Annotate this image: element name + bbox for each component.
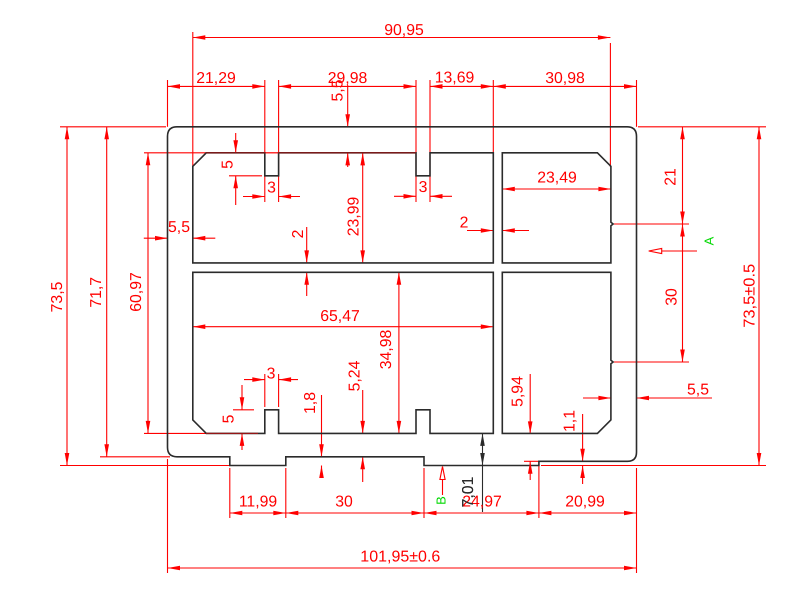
svg-text:60,97: 60,97 xyxy=(128,272,145,312)
dim line 73,5 xyxy=(66,127,68,466)
black dim text 7,01 overlay xyxy=(460,476,477,507)
dim text 5 at (228,419) xyxy=(221,414,238,423)
dim line 3 tab1 width xyxy=(244,379,298,381)
dim text 21,29 at (216,77) xyxy=(196,70,236,87)
extension line x=430 xyxy=(429,80,431,202)
dim text 3 at (271,373) xyxy=(267,366,276,383)
svg-text:5: 5 xyxy=(221,414,238,423)
dim text 71,7 at (95,292) xyxy=(88,277,105,308)
extension line right notch A (y=224) xyxy=(613,223,689,225)
dim text 29,98 at (347,77) xyxy=(328,70,368,87)
extension line top-right (y=126.8) xyxy=(638,126,766,128)
extension line tab top (y=409.8) xyxy=(233,409,254,411)
extension line x=610.4 xyxy=(609,43,611,167)
svg-text:2: 2 xyxy=(290,230,307,239)
dim line 1,8 xyxy=(321,395,323,477)
svg-text:30: 30 xyxy=(335,494,353,511)
extension line x=192.8 xyxy=(192,32,194,252)
dim line 2 vertical wall xyxy=(467,230,529,232)
dim line 3 notch2 width xyxy=(394,195,452,197)
extension overlap tint ceiling xyxy=(206,152,416,154)
extension line notch1 bottom (y=175.8) xyxy=(229,175,262,177)
datum B label xyxy=(434,496,449,505)
dim text 23,49 at (557,177) xyxy=(537,170,577,187)
extension line bottom-left (y=465.5) xyxy=(60,465,229,467)
dim text 30 at (344,501) xyxy=(335,494,353,511)
dim text 60,97 at (135,292) xyxy=(128,272,145,312)
dim line 13,69 xyxy=(430,85,493,87)
dim line 29,98 xyxy=(279,85,416,87)
dim line 5,94 xyxy=(524,374,540,480)
dim line 2 middle wall xyxy=(306,227,308,296)
extension line x=636.5 top xyxy=(636,80,638,127)
extension line x=493.3 xyxy=(492,80,494,153)
dim text 20,99 at (585,501) xyxy=(565,494,605,511)
dim line 5,5 top wall xyxy=(347,85,349,167)
svg-text:23,49: 23,49 xyxy=(537,170,577,187)
dim line 3 notch1 width xyxy=(243,196,300,198)
extension line floor level (y=433.4) xyxy=(144,432,258,434)
svg-text:90,95: 90,95 xyxy=(384,22,424,39)
dim text 30 at (671,297) xyxy=(664,288,681,306)
profile outer contour xyxy=(168,127,637,466)
dim line bottom chain xyxy=(230,512,637,514)
svg-text:2: 2 xyxy=(460,215,469,232)
dim line 21 right xyxy=(682,127,684,224)
dim text 34,98 at (385,349) xyxy=(378,330,395,370)
extension lines tab1 width xyxy=(265,374,279,407)
cavity bottom main chamber xyxy=(193,272,494,433)
datum A label xyxy=(702,236,717,245)
black dim 7,01 xyxy=(460,433,485,512)
extension line x=424 bottom xyxy=(423,468,425,518)
dim line 73,5 +/-0.5 xyxy=(758,127,760,466)
dim text 1,1 at (569,421) xyxy=(562,410,579,432)
svg-text:13,69: 13,69 xyxy=(435,70,475,87)
svg-text:73,5: 73,5 xyxy=(49,281,66,312)
svg-text:11,99: 11,99 xyxy=(239,494,278,511)
dim line 23,49 xyxy=(502,188,611,190)
dim text 73,5±0.5 at (749,295) xyxy=(742,264,759,328)
extension line x=538.9 bottom xyxy=(538,464,540,518)
svg-text:65,47: 65,47 xyxy=(320,308,360,325)
svg-text:71,7: 71,7 xyxy=(88,277,105,308)
svg-text:101,95±0.6: 101,95±0.6 xyxy=(360,549,440,566)
extension line x=167.5 bottom xyxy=(167,459,169,573)
dim text 73,5 at (56,297) xyxy=(49,281,66,312)
cavity top-right chamber xyxy=(502,153,613,263)
svg-text:34,98: 34,98 xyxy=(378,330,395,370)
svg-text:5: 5 xyxy=(220,160,237,169)
dim text 5,5 at (179,226) xyxy=(168,219,190,236)
dim line 23,99 xyxy=(362,153,364,263)
extension line x=636.5 bottom xyxy=(636,468,638,573)
datum A leader xyxy=(649,248,697,253)
dim line 5,24 xyxy=(362,390,364,482)
svg-text:23,99: 23,99 xyxy=(346,197,363,237)
dim text 2 at (297,234) xyxy=(290,230,307,239)
svg-text:21: 21 xyxy=(663,168,680,186)
svg-text:5,24: 5,24 xyxy=(347,360,364,391)
svg-text:5,94: 5,94 xyxy=(510,376,527,407)
dim line 65,47 xyxy=(193,326,494,328)
svg-text:3: 3 xyxy=(267,366,276,383)
extension line right notch B (y=362) xyxy=(613,361,689,363)
svg-text:1,1: 1,1 xyxy=(562,410,579,432)
dim line 71,7 xyxy=(106,127,108,457)
dim text 3 at (271,187) xyxy=(267,180,276,197)
extension line x=264.8 xyxy=(264,80,266,202)
extension line x=229.8 bottom xyxy=(229,468,231,518)
cavity top-left chamber xyxy=(193,153,494,263)
extension line top-left (y=126.8) xyxy=(60,126,166,128)
svg-text:A: A xyxy=(702,236,717,245)
dim text 90,95 at (404,29) xyxy=(384,22,424,39)
svg-text:5,5: 5,5 xyxy=(168,219,190,236)
extension line left 71.7 level (y=456.8) xyxy=(100,456,170,458)
extension line x=278.6 xyxy=(278,80,280,202)
dim text 65,47 at (340,315) xyxy=(320,308,360,325)
dim text 1,8 at (309,403) xyxy=(302,392,319,414)
extension line ceiling level (y=152.8) xyxy=(144,152,416,154)
dim line 34,98 xyxy=(398,272,400,433)
dim text 5,24 at (354,376) xyxy=(347,360,364,391)
svg-text:7,01: 7,01 xyxy=(460,476,477,507)
dim line 90,95 xyxy=(193,37,611,39)
extension line x=167.5 top xyxy=(167,80,169,127)
dim text 5,5 at (337,90) xyxy=(330,79,347,101)
dim text 21 at (670,177) xyxy=(663,168,680,186)
cavity bottom-right chamber xyxy=(502,272,613,433)
dim text 13,69 at (454,77) xyxy=(435,70,475,87)
dim text 5,5 at (698,389) xyxy=(687,382,709,399)
dim text 23,99 at (353,216) xyxy=(346,197,363,237)
dim line 30 right xyxy=(682,224,684,362)
dim line 5 notch1 depth xyxy=(235,133,237,205)
dim text 5,94 at (517,391) xyxy=(510,376,527,407)
extension overlap tint floor xyxy=(206,432,258,434)
dim text 30,98 at (565,77) xyxy=(545,70,585,87)
dim text 101,95±0.6 at (400,556) xyxy=(360,549,440,566)
dim line 21,29 xyxy=(168,85,265,87)
extension line bottom-right (y=465.5) xyxy=(541,465,766,467)
dim text 5 at (227,164) xyxy=(220,160,237,169)
extension line x=285.8 bottom xyxy=(285,468,287,518)
datum B leader xyxy=(440,467,445,496)
dim text 2 at (464,222) xyxy=(460,215,469,232)
svg-text:73,5±0.5: 73,5±0.5 xyxy=(742,264,759,328)
dim line 60,97 xyxy=(147,153,149,434)
svg-text:30: 30 xyxy=(664,288,681,306)
dim text 3 at (423,186) xyxy=(419,179,428,196)
dimension arrowheads xyxy=(65,35,762,570)
dim line 5,5 left wall xyxy=(144,237,216,239)
dim line 1,1 xyxy=(582,414,584,484)
svg-text:20,99: 20,99 xyxy=(565,494,605,511)
dim line 101,95 +/-0.6 xyxy=(168,567,637,569)
svg-text:5,5: 5,5 xyxy=(330,79,347,101)
svg-text:3: 3 xyxy=(419,179,428,196)
extension line x=416 xyxy=(415,80,417,202)
dim line 5 tab1 height xyxy=(241,385,243,450)
dim line 30,98 xyxy=(493,85,636,87)
svg-text:21,29: 21,29 xyxy=(196,70,236,87)
svg-text:5,5: 5,5 xyxy=(687,382,709,399)
dim text 11,99 at (258,501) xyxy=(239,494,278,511)
dim text 24,97 at (482,501) xyxy=(462,494,502,511)
svg-text:B: B xyxy=(434,496,449,505)
svg-text:3: 3 xyxy=(267,180,276,197)
svg-text:1,8: 1,8 xyxy=(302,392,319,414)
dim line 5,5 right wall xyxy=(583,397,712,399)
svg-text:30,98: 30,98 xyxy=(545,70,585,87)
